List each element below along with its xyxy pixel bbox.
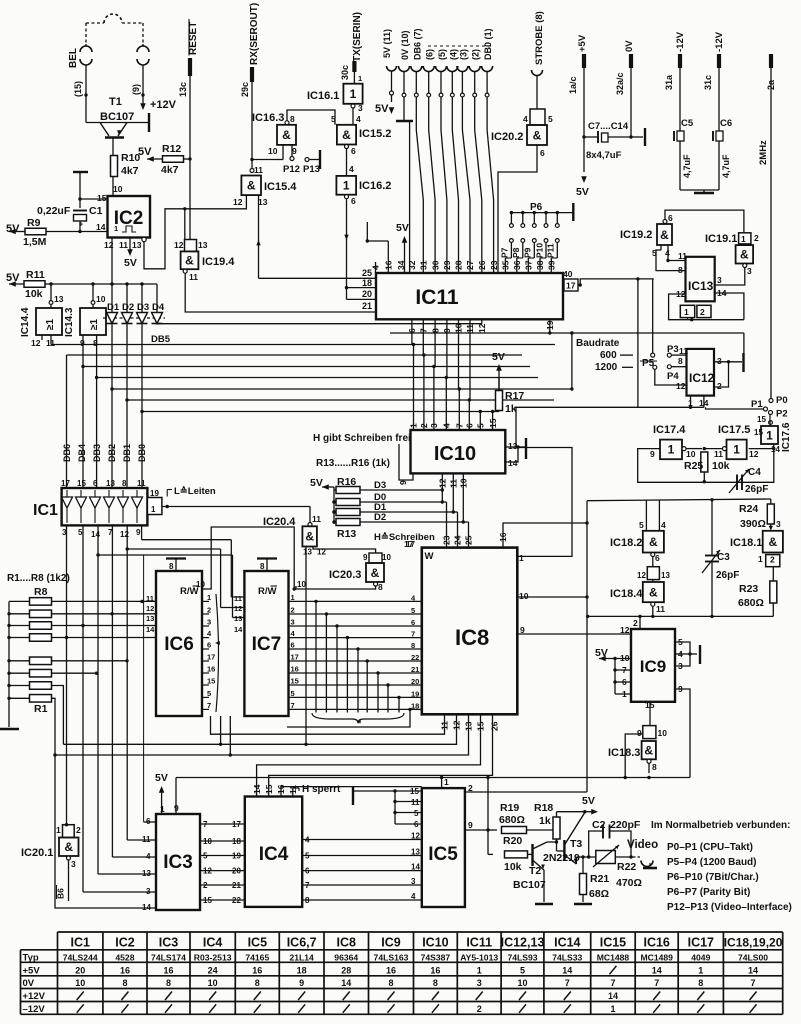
svg-text:14: 14 bbox=[341, 978, 351, 988]
svg-text:0V: 0V bbox=[23, 978, 35, 989]
svg-text:BC107: BC107 bbox=[100, 111, 134, 123]
svg-text:15: 15 bbox=[757, 415, 766, 424]
svg-text:22: 22 bbox=[411, 653, 419, 662]
svg-text:29: 29 bbox=[442, 260, 452, 270]
svg-text:DB0: DB0 bbox=[137, 444, 147, 462]
svg-text:C1: C1 bbox=[89, 205, 103, 217]
svg-text:(5): (5) bbox=[437, 49, 447, 60]
svg-text:9: 9 bbox=[398, 480, 408, 485]
svg-text:&: & bbox=[185, 254, 194, 268]
svg-text:IC18.1: IC18.1 bbox=[730, 537, 762, 549]
svg-text:5: 5 bbox=[639, 520, 644, 530]
svg-text:+5V: +5V bbox=[577, 34, 588, 52]
svg-text:P6–P7 (Parity Bit): P6–P7 (Parity Bit) bbox=[667, 887, 750, 898]
svg-text:DB0 (1): DB0 (1) bbox=[483, 28, 493, 60]
svg-text:27: 27 bbox=[465, 260, 475, 270]
svg-text:24: 24 bbox=[208, 965, 218, 975]
svg-text:11: 11 bbox=[656, 604, 665, 614]
svg-text:D2: D2 bbox=[122, 302, 134, 313]
svg-text:IC20.4: IC20.4 bbox=[263, 516, 296, 528]
svg-text:P6: P6 bbox=[530, 202, 543, 213]
svg-text:1: 1 bbox=[343, 179, 350, 193]
svg-text:1200: 1200 bbox=[595, 362, 618, 373]
svg-text:R8: R8 bbox=[34, 586, 48, 598]
svg-text:68Ω: 68Ω bbox=[589, 888, 609, 900]
svg-text:H sperrt: H sperrt bbox=[302, 784, 341, 795]
svg-text:21: 21 bbox=[232, 881, 241, 890]
svg-text:10: 10 bbox=[382, 553, 391, 562]
svg-text:5V: 5V bbox=[155, 772, 168, 784]
svg-text:10k: 10k bbox=[712, 460, 730, 472]
svg-text:0V: 0V bbox=[624, 40, 635, 52]
svg-text:DB6: DB6 bbox=[62, 444, 72, 462]
svg-text:IC16.3: IC16.3 bbox=[252, 112, 284, 124]
svg-text:IC10: IC10 bbox=[422, 936, 448, 950]
svg-text:74LS174: 74LS174 bbox=[151, 952, 186, 962]
svg-text:C7....C14: C7....C14 bbox=[588, 121, 629, 132]
svg-text:1: 1 bbox=[151, 505, 156, 514]
svg-text:31: 31 bbox=[419, 260, 429, 270]
svg-text:4,7uF: 4,7uF bbox=[721, 154, 731, 178]
svg-text:1: 1 bbox=[477, 965, 482, 975]
svg-text:18: 18 bbox=[411, 701, 419, 710]
svg-text:5: 5 bbox=[291, 689, 295, 698]
svg-text:20: 20 bbox=[362, 289, 372, 299]
svg-text:8: 8 bbox=[166, 978, 171, 988]
svg-text:6: 6 bbox=[93, 479, 98, 488]
svg-text:1: 1 bbox=[684, 307, 689, 317]
svg-text:13: 13 bbox=[106, 479, 115, 488]
svg-text:-12V: -12V bbox=[714, 31, 725, 52]
svg-text:26: 26 bbox=[477, 260, 487, 270]
svg-text:3: 3 bbox=[207, 618, 211, 627]
svg-text:20: 20 bbox=[232, 867, 241, 876]
svg-text:P0: P0 bbox=[776, 395, 788, 406]
svg-text:≥1: ≥1 bbox=[89, 319, 100, 330]
svg-text:IC15: IC15 bbox=[600, 936, 626, 950]
svg-text:10: 10 bbox=[268, 146, 278, 156]
svg-text:2MHz: 2MHz bbox=[758, 140, 769, 165]
svg-text:R03-2513: R03-2513 bbox=[194, 952, 232, 962]
svg-text:IC4: IC4 bbox=[203, 936, 223, 950]
svg-text:13c: 13c bbox=[178, 82, 188, 97]
svg-text:5: 5 bbox=[414, 809, 419, 818]
svg-text:8: 8 bbox=[290, 114, 295, 124]
svg-text:P2: P2 bbox=[776, 409, 788, 420]
svg-text:26pF: 26pF bbox=[716, 570, 739, 581]
svg-text:10: 10 bbox=[208, 978, 218, 988]
svg-text:74LS163: 74LS163 bbox=[374, 952, 409, 962]
svg-text:20: 20 bbox=[75, 965, 85, 975]
svg-text:5V: 5V bbox=[595, 647, 608, 659]
svg-text:4,7uF: 4,7uF bbox=[682, 154, 692, 178]
svg-text:P7: P7 bbox=[500, 247, 510, 258]
svg-text:14: 14 bbox=[411, 863, 420, 872]
svg-text:6: 6 bbox=[351, 146, 356, 156]
svg-text:680Ω: 680Ω bbox=[499, 814, 525, 826]
svg-text:8: 8 bbox=[378, 582, 383, 592]
svg-text:16: 16 bbox=[252, 965, 262, 975]
svg-text:12: 12 bbox=[637, 571, 646, 580]
svg-text:IC17: IC17 bbox=[688, 936, 714, 950]
svg-text:IC9: IC9 bbox=[640, 657, 666, 676]
svg-text:2: 2 bbox=[207, 606, 211, 615]
svg-text:74LS33: 74LS33 bbox=[552, 952, 582, 962]
svg-text:P12–P13 (Video–Interface): P12–P13 (Video–Interface) bbox=[667, 902, 792, 913]
svg-text:T1: T1 bbox=[109, 96, 122, 108]
svg-text:12: 12 bbox=[234, 604, 242, 613]
svg-text:1: 1 bbox=[758, 554, 763, 564]
svg-text:DB5: DB5 bbox=[151, 334, 171, 345]
svg-text:*: * bbox=[357, 718, 362, 730]
svg-text:IC17.6: IC17.6 bbox=[781, 422, 792, 452]
svg-text:4k7: 4k7 bbox=[161, 164, 179, 176]
svg-text:R23: R23 bbox=[739, 583, 758, 595]
svg-text:IC9: IC9 bbox=[381, 936, 401, 950]
svg-text:8x4,7uF: 8x4,7uF bbox=[586, 150, 622, 161]
svg-text:10: 10 bbox=[686, 449, 696, 459]
svg-text:14: 14 bbox=[252, 784, 262, 794]
svg-text:12: 12 bbox=[477, 323, 487, 333]
svg-text:IC14.3: IC14.3 bbox=[64, 307, 75, 337]
svg-text:IC19.1: IC19.1 bbox=[705, 233, 737, 245]
svg-text:&: & bbox=[282, 128, 291, 142]
svg-text:17: 17 bbox=[566, 281, 576, 291]
svg-text:19: 19 bbox=[411, 689, 419, 698]
svg-text:32a/c: 32a/c bbox=[615, 72, 625, 95]
svg-text:7: 7 bbox=[610, 978, 615, 988]
svg-text:0,22uF: 0,22uF bbox=[37, 205, 71, 217]
svg-text:IC15.2: IC15.2 bbox=[359, 128, 391, 140]
svg-text:R13......R16 (1k): R13......R16 (1k) bbox=[316, 458, 390, 469]
svg-text:R19: R19 bbox=[500, 802, 519, 814]
svg-text:3: 3 bbox=[411, 877, 416, 886]
svg-text:11: 11 bbox=[714, 449, 723, 459]
svg-text:IC19.4: IC19.4 bbox=[202, 256, 235, 268]
svg-text:14: 14 bbox=[608, 991, 618, 1001]
svg-text:28: 28 bbox=[341, 965, 351, 975]
svg-text:31a: 31a bbox=[664, 74, 674, 90]
svg-text:13: 13 bbox=[411, 848, 420, 857]
svg-text:5: 5 bbox=[207, 689, 211, 698]
svg-text:13: 13 bbox=[234, 614, 242, 623]
svg-text:1,5M: 1,5M bbox=[23, 236, 47, 248]
svg-text:16: 16 bbox=[163, 965, 173, 975]
svg-text:R1: R1 bbox=[34, 703, 48, 715]
svg-text:C3: C3 bbox=[717, 552, 730, 563]
svg-text:11: 11 bbox=[254, 165, 263, 175]
svg-text:1: 1 bbox=[350, 87, 357, 101]
svg-text:IC16.2: IC16.2 bbox=[359, 180, 391, 192]
svg-text:RESET: RESET bbox=[188, 22, 199, 55]
svg-text:13: 13 bbox=[303, 548, 312, 557]
svg-text:7: 7 bbox=[654, 978, 659, 988]
svg-text:P9: P9 bbox=[523, 247, 533, 258]
svg-text:C6: C6 bbox=[720, 118, 732, 129]
svg-text:3: 3 bbox=[747, 266, 752, 276]
svg-text:R24: R24 bbox=[739, 503, 758, 515]
svg-text:31c: 31c bbox=[703, 75, 713, 90]
svg-text:Im Normalbetrieb verbunden:: Im Normalbetrieb verbunden: bbox=[651, 820, 790, 831]
svg-text:R12: R12 bbox=[162, 143, 181, 155]
svg-text:(9): (9) bbox=[131, 84, 141, 95]
svg-text:21L14: 21L14 bbox=[289, 952, 314, 962]
svg-text:IC1: IC1 bbox=[33, 502, 58, 519]
svg-text:4049: 4049 bbox=[691, 952, 710, 962]
svg-text:C4: C4 bbox=[748, 467, 761, 478]
svg-text:32: 32 bbox=[407, 260, 417, 270]
svg-text:1: 1 bbox=[56, 825, 61, 835]
svg-text:74LS244: 74LS244 bbox=[63, 952, 98, 962]
svg-text:9: 9 bbox=[637, 728, 642, 738]
svg-text:IC10: IC10 bbox=[434, 443, 476, 465]
svg-text:IC20.3: IC20.3 bbox=[329, 569, 361, 581]
svg-text:13: 13 bbox=[198, 240, 208, 250]
svg-text:13: 13 bbox=[258, 197, 268, 207]
svg-text:17: 17 bbox=[61, 479, 70, 488]
svg-text:4: 4 bbox=[411, 892, 416, 901]
svg-text:29c: 29c bbox=[240, 82, 250, 97]
svg-text:DB6 (7): DB6 (7) bbox=[412, 28, 422, 60]
svg-text:IC3: IC3 bbox=[163, 852, 193, 873]
svg-text:3: 3 bbox=[71, 859, 76, 869]
svg-text:&: & bbox=[649, 535, 658, 549]
svg-text:15: 15 bbox=[77, 479, 86, 488]
svg-text:9: 9 bbox=[650, 449, 655, 459]
svg-text:IC18.3: IC18.3 bbox=[608, 747, 640, 759]
svg-text:10: 10 bbox=[620, 653, 630, 663]
svg-text:7: 7 bbox=[291, 701, 295, 710]
svg-text:P10: P10 bbox=[535, 243, 545, 258]
svg-text:1: 1 bbox=[358, 74, 362, 83]
svg-text:W: W bbox=[425, 551, 434, 562]
svg-text:DB1: DB1 bbox=[122, 444, 132, 462]
svg-text:18: 18 bbox=[297, 965, 307, 975]
svg-text:P6–P10 (7Bit/Char.): P6–P10 (7Bit/Char.) bbox=[667, 872, 759, 883]
svg-text:8: 8 bbox=[260, 562, 265, 571]
svg-text:&: & bbox=[768, 535, 777, 549]
svg-text:10: 10 bbox=[75, 978, 85, 988]
svg-text:&: & bbox=[649, 585, 658, 599]
svg-text:IC7: IC7 bbox=[252, 634, 282, 655]
svg-text:R/W: R/W bbox=[180, 586, 199, 597]
svg-text:T2: T2 bbox=[529, 865, 541, 877]
svg-text:2N2219: 2N2219 bbox=[543, 852, 580, 864]
svg-text:8: 8 bbox=[255, 978, 260, 988]
svg-text:6: 6 bbox=[668, 213, 673, 223]
svg-text:&: & bbox=[533, 128, 542, 142]
svg-text:1: 1 bbox=[741, 234, 746, 244]
svg-text:8: 8 bbox=[411, 641, 415, 650]
svg-text:74165: 74165 bbox=[245, 952, 269, 962]
svg-text:+12V: +12V bbox=[23, 991, 46, 1002]
svg-text:8: 8 bbox=[652, 762, 657, 772]
svg-text:17: 17 bbox=[232, 820, 241, 829]
svg-text:(3): (3) bbox=[458, 49, 468, 60]
svg-text:IC6: IC6 bbox=[164, 634, 194, 655]
svg-text:11: 11 bbox=[234, 594, 242, 603]
svg-text:74S387: 74S387 bbox=[421, 952, 451, 962]
svg-text:15: 15 bbox=[97, 193, 107, 203]
svg-text:1: 1 bbox=[733, 443, 740, 457]
svg-text:14: 14 bbox=[234, 625, 243, 634]
svg-text:STROBE (8): STROBE (8) bbox=[534, 11, 545, 65]
svg-text:IC11: IC11 bbox=[466, 936, 492, 950]
svg-text:40: 40 bbox=[563, 269, 573, 279]
svg-text:RX(SEROUT): RX(SEROUT) bbox=[249, 3, 260, 65]
svg-text:R22: R22 bbox=[617, 861, 636, 873]
svg-text:&: & bbox=[371, 566, 380, 580]
svg-text:1: 1 bbox=[698, 965, 703, 975]
svg-text:BC107: BC107 bbox=[513, 879, 546, 891]
svg-text:DB3: DB3 bbox=[92, 444, 102, 462]
svg-text:14: 14 bbox=[562, 965, 572, 975]
svg-text:1k: 1k bbox=[505, 403, 517, 415]
svg-text:1a/c: 1a/c bbox=[568, 76, 578, 94]
svg-text:&: & bbox=[64, 840, 73, 854]
svg-text:4: 4 bbox=[349, 164, 354, 174]
svg-text:74LS00: 74LS00 bbox=[738, 952, 768, 962]
svg-text:17: 17 bbox=[291, 653, 299, 662]
svg-text:12: 12 bbox=[411, 832, 420, 841]
svg-text:5V: 5V bbox=[138, 146, 152, 158]
svg-text:15: 15 bbox=[207, 677, 215, 686]
svg-text:6: 6 bbox=[411, 618, 415, 627]
svg-text:R9: R9 bbox=[27, 217, 41, 229]
svg-text:IC19.2: IC19.2 bbox=[620, 229, 652, 241]
svg-text:9: 9 bbox=[292, 146, 297, 156]
svg-text:11: 11 bbox=[137, 479, 146, 488]
svg-text:8: 8 bbox=[698, 978, 703, 988]
svg-text:21: 21 bbox=[362, 301, 372, 311]
svg-text:P13: P13 bbox=[303, 164, 320, 175]
svg-text:R21: R21 bbox=[590, 873, 609, 885]
svg-text:R25: R25 bbox=[684, 460, 703, 472]
svg-text:14: 14 bbox=[748, 965, 758, 975]
svg-text:5V: 5V bbox=[576, 186, 589, 198]
svg-text:7: 7 bbox=[565, 978, 570, 988]
svg-text:Typ: Typ bbox=[23, 952, 39, 963]
svg-text:13: 13 bbox=[146, 614, 154, 623]
svg-text:74LS93: 74LS93 bbox=[507, 952, 537, 962]
svg-text:5V: 5V bbox=[396, 222, 409, 234]
svg-text:16: 16 bbox=[207, 665, 215, 674]
svg-text:IC17.4: IC17.4 bbox=[653, 424, 686, 436]
svg-text:IC20.2: IC20.2 bbox=[491, 131, 523, 143]
svg-text:390Ω: 390Ω bbox=[740, 518, 766, 530]
svg-text:H gibt Schreiben frei: H gibt Schreiben frei bbox=[313, 433, 411, 444]
svg-text:5V: 5V bbox=[310, 477, 323, 489]
svg-text:IC18,19,20: IC18,19,20 bbox=[724, 936, 783, 950]
svg-text:1: 1 bbox=[444, 777, 449, 787]
svg-text:IC15.4: IC15.4 bbox=[264, 181, 297, 193]
svg-text:19: 19 bbox=[150, 489, 159, 498]
svg-text:DB2: DB2 bbox=[107, 444, 117, 462]
svg-text:8: 8 bbox=[433, 978, 438, 988]
svg-text:19: 19 bbox=[232, 852, 241, 861]
svg-text:3: 3 bbox=[291, 618, 295, 627]
svg-text:IC16: IC16 bbox=[643, 936, 669, 950]
svg-text:IC14.4: IC14.4 bbox=[20, 307, 31, 337]
svg-text:21: 21 bbox=[411, 665, 419, 674]
svg-text:T3: T3 bbox=[570, 838, 582, 850]
svg-text:1: 1 bbox=[610, 1004, 615, 1014]
svg-text:Video: Video bbox=[627, 839, 658, 851]
svg-text:P5–P4 (1200 Baud): P5–P4 (1200 Baud) bbox=[667, 857, 757, 868]
svg-text:220pF: 220pF bbox=[610, 819, 641, 831]
svg-text:16: 16 bbox=[386, 965, 396, 975]
svg-text:26pF: 26pF bbox=[745, 484, 768, 495]
svg-text:R20: R20 bbox=[503, 835, 522, 847]
svg-text:17: 17 bbox=[404, 539, 414, 549]
svg-text:&: & bbox=[660, 228, 669, 242]
svg-text:IC3: IC3 bbox=[159, 936, 179, 950]
svg-text:P0–P1 (CPU–Takt): P0–P1 (CPU–Takt) bbox=[667, 842, 753, 853]
svg-text:23: 23 bbox=[489, 260, 499, 270]
svg-text:12: 12 bbox=[233, 197, 243, 207]
svg-text:BEL: BEL bbox=[68, 48, 79, 68]
svg-text:470Ω: 470Ω bbox=[616, 877, 642, 889]
svg-text:8: 8 bbox=[388, 978, 393, 988]
svg-text:1: 1 bbox=[114, 224, 118, 233]
svg-text:5: 5 bbox=[78, 528, 83, 537]
svg-text:30: 30 bbox=[430, 260, 440, 270]
svg-text:D3: D3 bbox=[137, 302, 149, 313]
svg-text:12: 12 bbox=[31, 338, 41, 348]
svg-text:16: 16 bbox=[120, 965, 130, 975]
svg-text:28: 28 bbox=[454, 260, 464, 270]
svg-text:5: 5 bbox=[520, 965, 525, 975]
svg-text:6: 6 bbox=[207, 641, 211, 650]
svg-text:2: 2 bbox=[477, 1004, 482, 1014]
svg-text:DB4: DB4 bbox=[77, 444, 87, 462]
svg-text:1: 1 bbox=[291, 593, 295, 602]
svg-text:7: 7 bbox=[411, 630, 415, 639]
svg-text:(4): (4) bbox=[448, 49, 458, 60]
svg-text:IC16.1: IC16.1 bbox=[307, 90, 339, 102]
svg-text:4528: 4528 bbox=[115, 952, 134, 962]
svg-text:13: 13 bbox=[54, 294, 64, 304]
svg-text:L≙Leiten: L≙Leiten bbox=[174, 485, 216, 497]
svg-text:+12V: +12V bbox=[150, 99, 177, 111]
svg-text:14: 14 bbox=[652, 965, 662, 975]
svg-text:22: 22 bbox=[232, 896, 241, 905]
svg-text:IC1: IC1 bbox=[70, 936, 90, 950]
svg-text:15: 15 bbox=[291, 677, 299, 686]
svg-text:3: 3 bbox=[776, 519, 781, 529]
svg-text:14: 14 bbox=[142, 903, 151, 912]
svg-text:680Ω: 680Ω bbox=[738, 597, 764, 609]
svg-text:8: 8 bbox=[169, 562, 174, 571]
svg-text:&: & bbox=[247, 179, 256, 193]
svg-text:12: 12 bbox=[146, 604, 154, 613]
svg-text:(6): (6) bbox=[425, 49, 435, 60]
svg-text:IC18.4: IC18.4 bbox=[610, 588, 643, 600]
svg-text:15: 15 bbox=[264, 784, 274, 794]
svg-text:11: 11 bbox=[312, 514, 321, 524]
svg-text:5V: 5V bbox=[582, 795, 595, 807]
svg-text:7: 7 bbox=[751, 978, 756, 988]
svg-text:17: 17 bbox=[207, 653, 215, 662]
svg-text:5V: 5V bbox=[492, 351, 505, 363]
svg-text:R18: R18 bbox=[534, 802, 553, 814]
svg-text:11: 11 bbox=[189, 272, 198, 282]
svg-text:10: 10 bbox=[113, 184, 123, 194]
svg-text:12: 12 bbox=[120, 530, 129, 539]
svg-text:MC1489: MC1489 bbox=[640, 952, 673, 962]
svg-text:9: 9 bbox=[468, 820, 473, 830]
svg-text:4: 4 bbox=[356, 114, 361, 124]
